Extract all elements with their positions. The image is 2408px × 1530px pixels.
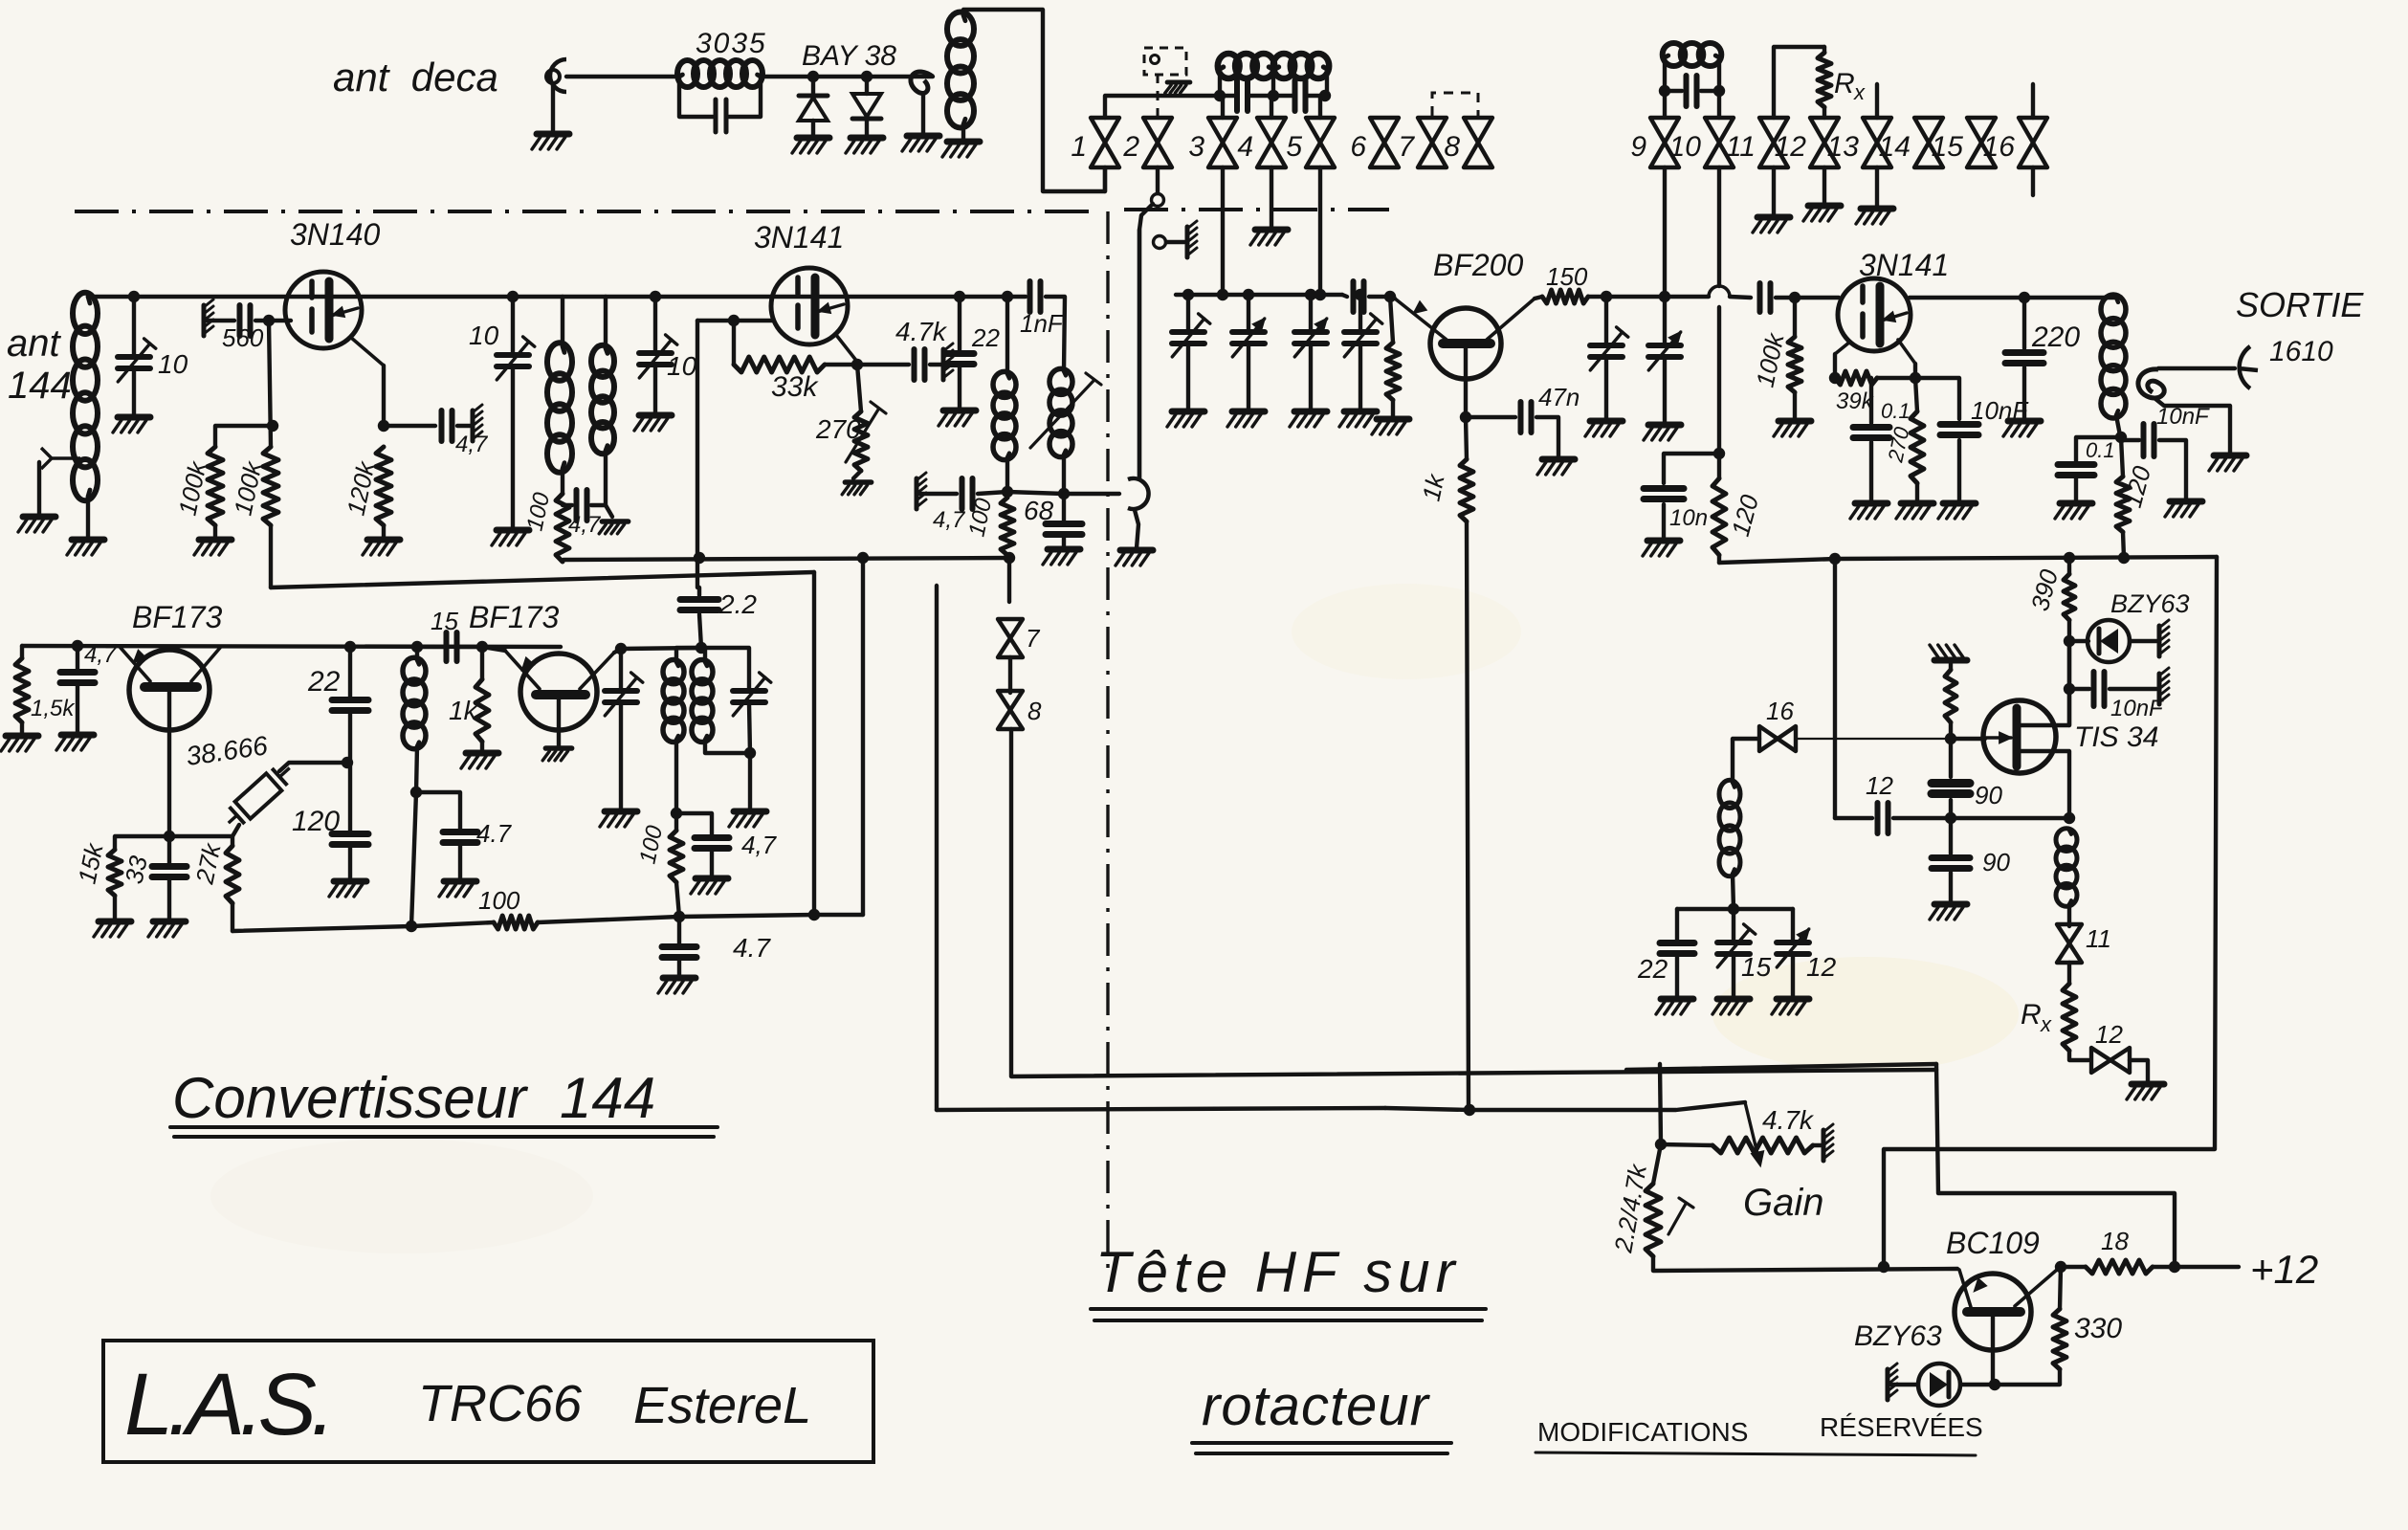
svg-text:560: 560 <box>222 323 264 352</box>
label 15 b <box>1741 952 1772 982</box>
svg-text:4,7: 4,7 <box>741 831 778 859</box>
wire 15k branch <box>115 836 169 850</box>
wire L2 gain feed <box>937 1108 1385 1110</box>
svg-text:10: 10 <box>469 321 499 350</box>
svg-text:10nF: 10nF <box>2110 696 2164 721</box>
wire 10nF c chassis <box>2110 687 2156 691</box>
wire contact2 bottom <box>1156 167 1160 193</box>
label 100k a <box>173 457 212 518</box>
wire emitter to BZY63b <box>1960 1383 1995 1386</box>
rotacteur contact 16 lower <box>1759 726 1796 751</box>
ground 120k <box>363 540 400 555</box>
wire 4,7 link b <box>591 503 606 507</box>
wire contact13 bottom <box>1875 167 1879 207</box>
label 120 osc <box>292 806 340 837</box>
ground 15k <box>94 921 131 937</box>
wire 0.1 gnd <box>1869 442 1873 501</box>
label 4,7 c <box>741 831 778 859</box>
wire cap to base node <box>1369 295 1390 299</box>
label 39k <box>1836 388 1875 414</box>
transistor 3N141 second <box>1838 278 1911 351</box>
rotacteur contact 15 <box>1967 118 1996 167</box>
wire varB feed <box>701 648 749 690</box>
rotacteur contact 7 mid <box>998 619 1023 657</box>
wire trimmer C2 gnd <box>511 367 515 528</box>
ground 22 <box>939 410 976 426</box>
wire aux to chassis <box>1166 240 1184 244</box>
wire L2 top feed <box>963 10 1105 191</box>
wire 90a to gate <box>1949 739 1953 777</box>
resistor 1k osc <box>475 679 489 742</box>
svg-text:12: 12 <box>2095 1020 2123 1049</box>
wire 1k long drop <box>1467 521 1469 1110</box>
ground 47n <box>1537 459 1575 475</box>
trimmer row 2 <box>1232 319 1265 357</box>
svg-text:2.2: 2.2 <box>718 589 757 619</box>
capacitor 68 <box>1046 524 1082 535</box>
title RESERVEES <box>1820 1412 1983 1442</box>
label contact 8 <box>1444 131 1460 163</box>
wire BC109 emitter <box>1991 1316 1995 1383</box>
resistor 100 vertical <box>670 831 683 882</box>
ground BF173b <box>542 748 571 761</box>
dashed bracket contacts 7-8 <box>1432 93 1478 116</box>
wire right tall rail <box>1884 557 2217 1267</box>
wire T2 prim bottom <box>674 740 678 813</box>
ground 12 lower <box>2127 1084 2164 1099</box>
wire trimmer C2 <box>511 297 515 354</box>
ground 90b <box>1930 904 1967 920</box>
resistor 120 (IF) <box>2116 477 2130 532</box>
label ant deca <box>333 55 498 100</box>
wire trimmer row <box>1176 293 1342 297</box>
ground 270 <box>842 482 871 495</box>
wire 1k osc top <box>480 647 484 679</box>
label 4.7 below <box>733 933 771 963</box>
capacitor tank Ca <box>1237 80 1248 111</box>
wire T1 sec bottom <box>604 451 608 505</box>
label 10nF a <box>1971 396 2029 425</box>
node W1 coil <box>406 920 417 932</box>
rotacteur contact 5 <box>1306 118 1335 167</box>
ground contact2 dashed <box>1165 82 1190 93</box>
wire trim6 gnd <box>1663 358 1667 423</box>
node U corner <box>808 909 820 920</box>
resistor Gain 4.7k <box>1712 1138 1813 1153</box>
svg-text:15: 15 <box>431 607 458 635</box>
label ant 144 b <box>8 365 72 407</box>
svg-text:4,7: 4,7 <box>455 432 489 457</box>
wire gate2 long <box>1833 559 1837 818</box>
wire 90b gnd <box>1949 873 1953 902</box>
capacitor 4,7 osc <box>60 673 95 683</box>
label contact 3 <box>1188 131 1204 163</box>
wire trim 1 drop <box>1186 295 1190 331</box>
ground contact13 <box>1856 209 1893 224</box>
resistor 18 <box>2086 1260 2153 1274</box>
wire T2 prim top <box>676 648 701 662</box>
inductor L2 deca tank <box>947 12 974 128</box>
wire BZY63b chassis <box>1890 1383 1918 1386</box>
svg-text:Tête HF sur: Tête HF sur <box>1095 1240 1461 1304</box>
node tank16 <box>1728 903 1739 915</box>
transistor 3N141 first <box>771 268 848 344</box>
wire contact5 top stub <box>1318 96 1322 118</box>
node after 150 <box>1601 291 1612 302</box>
wire 330 bottom <box>1995 1369 2060 1385</box>
wire 47n a <box>1466 415 1515 419</box>
wire contact4 top stub <box>1270 96 1273 118</box>
pot 2.2 wiper <box>1668 1198 1693 1234</box>
capacitor tank 9-10 <box>1687 76 1697 106</box>
rotacteur contact 8 mid <box>998 691 1023 729</box>
node contact5 junction <box>1314 289 1326 300</box>
node trimmer row 3 <box>1305 289 1316 300</box>
wire tank coil down <box>1733 874 1734 909</box>
wire 4,7 link <box>563 503 572 507</box>
ground trim6 <box>1644 425 1681 440</box>
wire trim 3 gnd <box>1309 344 1313 410</box>
wire 12 drop <box>1791 909 1795 942</box>
inductor osc tank BF173 <box>403 657 426 748</box>
wire BF173a base <box>167 691 171 836</box>
svg-text:TIS 34: TIS 34 <box>2074 721 2158 753</box>
svg-text:220: 220 <box>2031 322 2080 353</box>
wire 560 right <box>255 319 291 322</box>
wire 10nF b lead <box>2121 438 2139 442</box>
wire 0.1 branch <box>1869 378 1873 423</box>
capacitor 10nF b <box>2144 424 2154 456</box>
svg-text:x: x <box>2040 1012 2052 1036</box>
svg-text:BZY63: BZY63 <box>2110 589 2190 618</box>
wire tank left drop <box>1218 69 1222 96</box>
connector SORTIE <box>2239 346 2258 388</box>
chassis gain <box>1823 1124 1833 1161</box>
node main A <box>507 291 519 302</box>
wire contact11 top <box>1774 47 1824 118</box>
wire contact10 col upper <box>1717 167 1721 286</box>
wire 330 top <box>2060 1267 2061 1309</box>
wire contact11 bottom <box>1772 167 1776 215</box>
node emitter <box>1989 1379 2000 1390</box>
transistor TIS34 <box>1983 700 2056 773</box>
wire right rect <box>1936 1064 2175 1267</box>
svg-text:150: 150 <box>1546 262 1588 291</box>
ground 4.7 below <box>658 978 696 993</box>
separator dash-dot left <box>75 210 1100 213</box>
rotacteur contact 12 lower <box>2091 1048 2130 1073</box>
wire wiper ground <box>1135 510 1138 548</box>
wire 4.7k chassis <box>930 363 941 366</box>
label 4.7 osc tank <box>476 819 513 848</box>
chassis 4,7 <box>473 405 482 441</box>
node BF200 base <box>1384 291 1396 302</box>
transistor 3N140 source lead <box>350 337 384 366</box>
node plus12 right <box>2169 1261 2180 1273</box>
chassis BZY63b <box>1888 1364 1897 1400</box>
trimmer C2 10pF <box>497 337 535 380</box>
resistor 120k <box>376 447 391 525</box>
capacitor 22 (mixer) <box>945 354 974 365</box>
ground trim 3 <box>1290 411 1327 427</box>
capacitor 4,7 (3N140) <box>442 410 453 441</box>
wire trimmer C1 <box>132 297 136 356</box>
wire gain left up <box>1660 1064 1661 1144</box>
title 144 <box>560 1066 655 1130</box>
svg-text:15: 15 <box>1741 952 1772 982</box>
ground ant coil <box>67 540 104 555</box>
rotacteur contact 7 <box>1418 118 1447 167</box>
svg-text:10: 10 <box>667 351 697 381</box>
capacitor 10nF c <box>2094 672 2105 706</box>
wire varB down <box>749 703 750 753</box>
wire gate1 3N141 <box>697 319 773 322</box>
wire D2 to ground <box>865 119 869 136</box>
wire contact16 bottom stub <box>2031 167 2035 195</box>
node diode D2 <box>861 71 873 82</box>
svg-text:SORTIE: SORTIE <box>2236 285 2364 324</box>
node tank left <box>1214 90 1226 101</box>
wire Rx to 12 <box>2069 1051 2088 1060</box>
bus A right segment <box>1719 557 2217 563</box>
node W1 100V <box>674 911 685 922</box>
ground 4,7c <box>691 878 728 894</box>
label contact 13 <box>1827 131 1860 163</box>
inductor IF output <box>2101 295 2126 418</box>
resistor 1,5k <box>15 658 29 722</box>
wire 270 top <box>857 365 861 411</box>
wire U left leg <box>812 572 816 915</box>
wire 4,7 to chassis <box>457 424 471 428</box>
dashed link contact2 <box>1144 48 1186 118</box>
wire 27k branch <box>169 836 232 846</box>
wire hop over contact10 <box>1665 286 1751 298</box>
label contact 7 mid <box>1026 624 1041 653</box>
node 4,7 osc <box>72 640 83 652</box>
chassis 560 <box>204 299 213 336</box>
label plus12 <box>2250 1247 2318 1292</box>
wire 1k top <box>1466 417 1467 459</box>
wire gain left <box>1661 1144 1712 1145</box>
resistor 150 <box>1542 290 1588 303</box>
trimmer osc B <box>733 673 771 716</box>
separator dash-dot vertical <box>1106 211 1109 1271</box>
wire 270 IF top <box>1915 378 1917 411</box>
node 22 osc <box>344 641 356 653</box>
capacitor 4,7 (mixer) <box>962 478 973 509</box>
wire 120 IF top <box>2121 437 2123 477</box>
rotor wiper <box>1128 478 1149 509</box>
wire prim top <box>561 297 564 346</box>
wire BF200 base down <box>1464 347 1468 417</box>
wire trim5 gnd <box>1604 358 1608 419</box>
wire gain right <box>1813 1143 1821 1147</box>
ground wiper <box>1116 550 1153 565</box>
wire trimmer C3 gnd <box>653 366 657 413</box>
wire pot 2.2 top <box>1653 1144 1661 1184</box>
trimmer after 150 <box>1590 327 1628 370</box>
node tank mid <box>1268 90 1279 101</box>
label Rx sub <box>1853 80 1866 104</box>
resistor 100 (T1) <box>556 494 569 562</box>
ground 220 <box>2003 421 2041 436</box>
wire 68 drop <box>1062 494 1066 521</box>
label 1610 <box>2269 336 2333 367</box>
ground 100k a <box>194 540 232 555</box>
wire TIS34 gate lead <box>1951 737 1985 741</box>
label 4,7 osc <box>84 642 118 668</box>
wire 22 osc drop <box>348 647 352 697</box>
gain wiper arrow <box>1745 1102 1763 1165</box>
label 270 <box>815 414 861 444</box>
label BF173 a <box>132 600 222 634</box>
label 150 <box>1546 262 1588 291</box>
wire T2 sec bottom <box>705 740 750 753</box>
resistor 390 <box>2064 574 2075 620</box>
wire varA to T2 <box>621 648 701 649</box>
wire tap down <box>37 462 41 515</box>
label 90 b <box>1982 848 2010 876</box>
wire cap to 3N141b <box>1776 296 1839 299</box>
svg-text:4,7: 4,7 <box>84 642 118 668</box>
inductor T2 primary <box>663 660 684 743</box>
wire 3035 box left <box>679 77 713 117</box>
label contact 8 mid <box>1027 697 1042 725</box>
wire 270 gnd <box>853 471 861 478</box>
wire trim6 drop <box>1663 297 1667 344</box>
wire contact10 top <box>1717 91 1721 118</box>
wire contact3 top stub <box>1221 96 1225 118</box>
label BZY63 a <box>2110 589 2190 618</box>
wire 10nF b to chassis <box>2159 440 2186 499</box>
wire trim 1 gnd <box>1186 344 1190 410</box>
label 1,5k <box>31 696 76 721</box>
node 68 <box>1058 488 1070 499</box>
node diode D1 <box>807 71 819 82</box>
capacitor 0.1 a <box>1853 428 1889 438</box>
wire T2 sec top <box>701 648 705 662</box>
wire 3035 to diodes <box>761 75 933 78</box>
wire L2 bottom to ground <box>961 124 965 140</box>
wire 33k drop <box>732 321 736 365</box>
svg-text:+12: +12 <box>2250 1247 2318 1292</box>
ground 15 <box>1712 999 1750 1014</box>
node BC109 collector <box>2055 1261 2066 1273</box>
wire 33k to node <box>825 363 857 366</box>
wire 90a link <box>1949 800 1953 818</box>
bus A left <box>563 558 1009 560</box>
svg-text:16: 16 <box>1766 697 1794 725</box>
ground contact12 <box>1803 206 1841 221</box>
wire g2 divider drop lower <box>269 525 273 588</box>
svg-text:7: 7 <box>1026 624 1041 653</box>
wire osc top rail <box>22 646 561 647</box>
wire 12 cap rail <box>1835 816 1872 820</box>
resistor 15k <box>108 850 122 896</box>
inductor T1 secondary <box>591 345 614 454</box>
wire 100V top lead <box>674 813 678 831</box>
wire Rx to contact12 <box>1823 47 1826 53</box>
wire 22pF drop <box>958 297 961 350</box>
wire trim 2 gnd <box>1247 344 1250 410</box>
node 100k gate <box>1789 292 1800 303</box>
node tank right <box>1319 90 1331 101</box>
trimmer C1 10pF <box>118 339 156 382</box>
label 0.1 b <box>2086 438 2115 462</box>
diode D2 BAY38 <box>852 94 881 119</box>
label 33k <box>771 371 819 403</box>
node BZY63a <box>2064 635 2075 647</box>
svg-text:1: 1 <box>1071 131 1087 163</box>
chassis BZY63a <box>2159 620 2169 656</box>
wire U right leg <box>861 558 865 915</box>
wire link bottom <box>2154 398 2230 454</box>
wire to contact9 col <box>1606 295 1665 299</box>
ground varA <box>600 811 637 827</box>
svg-text:10: 10 <box>158 349 188 379</box>
svg-text:90: 90 <box>1982 848 2010 876</box>
wire 4.7 below gnd <box>677 961 681 976</box>
svg-text:12: 12 <box>1806 952 1837 982</box>
link loop SORTIE <box>2138 369 2164 398</box>
wire L1a gain top <box>1626 1064 1936 1070</box>
label 120 IF <box>2118 462 2156 510</box>
svg-text:1610: 1610 <box>2269 336 2333 367</box>
wire 47n b <box>1536 417 1558 457</box>
wire 0.1b gnd <box>2074 478 2078 501</box>
node contact3 junction <box>1217 289 1228 300</box>
label 100 (T1) <box>521 490 555 533</box>
svg-text:BZY63: BZY63 <box>1854 1320 1942 1352</box>
ground bias <box>1372 419 1409 434</box>
svg-text:1k: 1k <box>449 696 479 725</box>
ground L2 <box>942 142 980 157</box>
inductor tank 9-10 <box>1663 43 1722 66</box>
label contact 14 <box>1879 131 1911 163</box>
label BF200 <box>1433 248 1523 282</box>
underline modifications <box>1535 1452 1976 1455</box>
terminal osc inject <box>1152 194 1164 207</box>
node osc divider <box>1945 812 1956 824</box>
wire J1 to coil 3035 <box>566 75 679 78</box>
ground trimmer C2 <box>492 530 529 545</box>
svg-text:8: 8 <box>1444 131 1460 163</box>
capacitor 4,7 c <box>695 838 729 849</box>
capacitor 33 <box>152 867 187 877</box>
wire osc divider to rail <box>1951 816 2069 820</box>
capacitor 1nF <box>1030 281 1041 312</box>
wire 15 gnd <box>1732 955 1735 997</box>
node gate1 3N141 <box>728 315 740 326</box>
label 1nF <box>1020 309 1065 338</box>
wire 4,7c gnd <box>710 852 714 876</box>
label 2.2 <box>718 589 757 619</box>
label 10nF c <box>2110 696 2164 721</box>
wire between 7 8 <box>1008 657 1012 693</box>
capacitor 4.7 below <box>662 947 696 958</box>
trimmer 15 <box>1717 924 1756 967</box>
title Tete HF sur <box>1095 1240 1461 1304</box>
label BC109 <box>1946 1226 2040 1260</box>
label contact 9 <box>1630 131 1646 163</box>
transistor BC109 <box>1955 1270 2057 1350</box>
wire 16 right faint <box>1796 738 1951 740</box>
svg-text:4.7k: 4.7k <box>895 317 948 346</box>
wire 1,5k gnd <box>20 722 24 734</box>
wire 10nF c lead <box>2069 687 2089 691</box>
label 10 (C3) <box>667 351 697 381</box>
resistor 33k <box>734 357 825 372</box>
